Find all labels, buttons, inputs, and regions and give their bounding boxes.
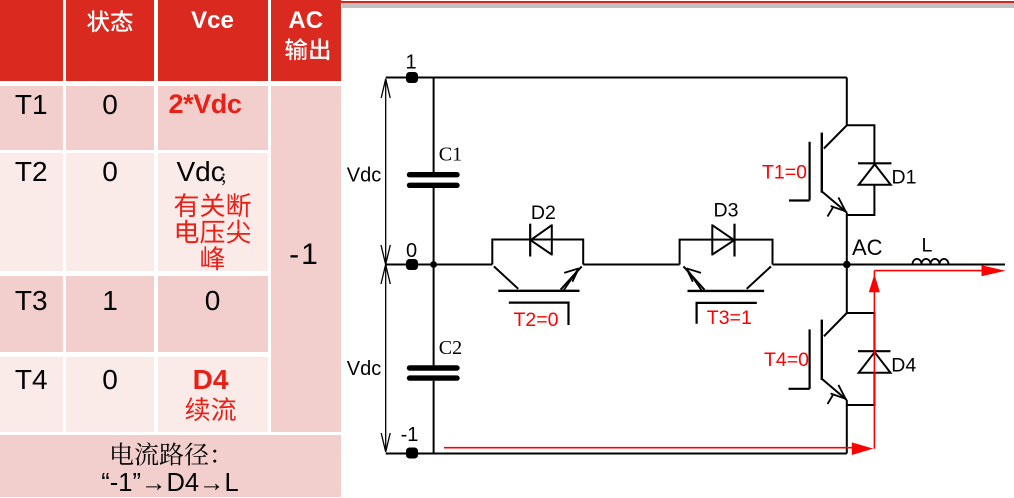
transistor T2 collector diagonal xyxy=(494,266,518,288)
table footer cell xyxy=(0,435,341,497)
diode D1 branch wires xyxy=(847,125,875,215)
transistor T1 collector diagonal xyxy=(824,125,847,148)
node 1 dot xyxy=(406,72,418,83)
diode D3 anode bar xyxy=(711,224,713,255)
wire T3 to AC node xyxy=(773,264,847,266)
diode D3 triangle xyxy=(712,225,734,254)
row T1 label xyxy=(0,89,63,121)
top red accent line xyxy=(340,1,1014,3)
row T1 Vce value xyxy=(158,89,253,120)
svg-text:D3: D3 xyxy=(714,200,739,222)
transistor T3 emitter arrow xyxy=(686,268,701,290)
capacitor C1 bottom plate xyxy=(410,183,458,188)
row T3 state xyxy=(66,285,154,317)
table header cell col3 xyxy=(158,0,268,81)
diode D1 triangle xyxy=(859,164,891,185)
transistor T3 body bar xyxy=(688,290,765,292)
transistor T4 collector diagonal xyxy=(824,313,847,336)
diode D2 triangle xyxy=(531,225,552,254)
dimension arrows at node 0 xyxy=(381,245,390,284)
red current path vertical through D4 xyxy=(873,271,875,449)
transistor T1 emitter arrow xyxy=(828,197,846,216)
wire bus node1 to C1 xyxy=(433,78,435,173)
svg-text:D1: D1 xyxy=(892,167,917,189)
row T4 state xyxy=(66,364,154,396)
transistor T2 body bar xyxy=(498,290,579,292)
svg-text:1: 1 xyxy=(405,52,416,74)
diode D2 cathode bar xyxy=(529,224,531,257)
transistor T2 gate bar and lead xyxy=(509,303,569,325)
wire mid rail left (node 0) xyxy=(386,264,493,266)
transistor T4 gate lead xyxy=(789,388,810,390)
fullwidth semicolon after Vdc xyxy=(222,173,225,185)
capacitor C2 top plate xyxy=(410,365,458,370)
red arrowhead up into AC xyxy=(869,274,880,292)
junction dot bus/mid xyxy=(430,261,437,268)
transistor T1 gate bar xyxy=(808,142,810,201)
transistor T4 emitter arrow xyxy=(828,385,846,404)
transistor T4 emitter diagonal xyxy=(822,379,847,400)
table row T3 cell col1 xyxy=(0,276,63,352)
diode D4 cathode bar xyxy=(858,350,891,352)
header label AC xyxy=(271,7,341,35)
diode D4 triangle xyxy=(859,352,891,373)
inductor L coil xyxy=(913,259,949,264)
header label state (CJK) xyxy=(87,10,132,32)
red arrowhead bottom right xyxy=(852,442,873,455)
row T3 Vce value xyxy=(158,285,268,317)
node 0 dot xyxy=(406,259,418,270)
footer current path line2 xyxy=(0,469,340,498)
wire bottom rail (node -1) xyxy=(386,453,847,455)
row T2 red note line1 (CJK) xyxy=(175,193,251,217)
svg-text:Vdc: Vdc xyxy=(347,358,381,380)
svg-text:-1: -1 xyxy=(401,424,419,446)
diode D3 cathode bar xyxy=(733,224,735,257)
node AC dot xyxy=(843,261,851,269)
wire AC output through L xyxy=(847,264,1005,266)
table header cell col1 xyxy=(0,0,63,81)
row T2 red note line2 (CJK) xyxy=(177,220,251,244)
transistor T2 emitter arrow xyxy=(564,268,579,290)
svg-text:AC: AC xyxy=(852,235,883,260)
capacitor C1 top plate xyxy=(410,172,458,177)
header label Vce xyxy=(158,7,268,35)
row T3 label xyxy=(0,285,63,317)
row T2 state xyxy=(66,156,154,188)
wire between T2 and T3 xyxy=(583,264,679,266)
table merged AC-output cell xyxy=(271,86,341,433)
transistor T3 emitter diagonal xyxy=(684,266,705,289)
table row T1 cell col1 xyxy=(0,86,63,150)
capacitor C2 bottom plate xyxy=(410,375,458,380)
svg-text:D4: D4 xyxy=(891,354,916,376)
transistor T3 gate bar and lead xyxy=(697,303,757,324)
table row T3 cell col2 xyxy=(66,276,154,352)
transistor T4 emitter wire to rail xyxy=(846,400,848,454)
svg-text:C1: C1 xyxy=(439,144,462,166)
table row T2 cell col3 xyxy=(158,153,268,271)
table row T2 cell col2 xyxy=(66,153,154,271)
wire bus C1 to C2 xyxy=(433,188,435,366)
table row T2 cell col1 xyxy=(0,153,63,271)
transistor T3 bypass loop xyxy=(680,240,773,265)
table row T4 cell col2 xyxy=(66,357,154,433)
AC output value xyxy=(271,238,338,272)
diode D2 anode bar xyxy=(551,224,553,255)
transistor T1 emitter diagonal xyxy=(822,191,847,212)
table row T1 cell col3 xyxy=(158,86,268,150)
transistor T1 body bar xyxy=(821,133,823,193)
row T4 Vce value xyxy=(158,364,264,396)
dimension arrow down at node -1 xyxy=(381,433,390,452)
svg-text:T4=0: T4=0 xyxy=(764,349,809,371)
transistor T1 gate lead xyxy=(789,199,810,201)
table header cell col2 xyxy=(66,0,154,81)
row T2 red note line3 (CJK) xyxy=(201,246,224,270)
row T1 state xyxy=(66,89,154,121)
row T2 Vce value line1 xyxy=(177,156,225,188)
transistor T4 collector wire xyxy=(846,265,848,314)
table row T3 cell col3 xyxy=(158,276,268,352)
svg-text:L: L xyxy=(922,235,933,257)
svg-text:T2=0: T2=0 xyxy=(514,309,559,331)
table row T4 cell col3 xyxy=(158,357,268,433)
red arrowhead output xyxy=(982,265,1006,276)
dimension arrow up at node 1 xyxy=(381,79,390,98)
transistor T4 gate bar xyxy=(808,329,810,388)
svg-text:T1=0: T1=0 xyxy=(762,161,807,183)
wire top rail (node 1) xyxy=(386,77,847,79)
node -1 dot xyxy=(406,448,418,459)
row T4 red note (CJK) xyxy=(186,397,236,421)
transistor T1 collector wire xyxy=(846,78,848,126)
red current path AC output segment xyxy=(874,270,982,272)
red current path bottom segment xyxy=(444,447,853,449)
transistor T4 body bar xyxy=(821,320,823,380)
transistor T3 collector diagonal xyxy=(747,266,771,288)
diode D4 branch wires xyxy=(847,313,875,405)
svg-text:D2: D2 xyxy=(531,202,556,224)
wire bus C2 to node -1 xyxy=(433,381,435,454)
row T2 label xyxy=(0,156,63,188)
transistor T1 emitter wire to AC xyxy=(846,213,848,265)
diode D1 cathode bar xyxy=(858,162,892,164)
table row T4 cell col1 xyxy=(0,357,63,433)
header label AC-output line2 (CJK) xyxy=(285,38,329,60)
svg-text:C2: C2 xyxy=(439,337,462,359)
top gray bar xyxy=(342,3,1014,8)
Vdc dimension line xyxy=(385,79,387,452)
svg-text:Vdc: Vdc xyxy=(347,165,381,187)
transistor T2 emitter diagonal xyxy=(561,266,582,289)
row T4 label xyxy=(0,364,63,396)
svg-text:0: 0 xyxy=(406,240,417,262)
table row T1 cell col2 xyxy=(66,86,154,150)
footer current path line1 (CJK) xyxy=(112,442,216,465)
svg-text:T3=1: T3=1 xyxy=(707,307,752,329)
transistor T2 bypass loop xyxy=(492,240,583,265)
table header cell col4 xyxy=(271,0,341,81)
